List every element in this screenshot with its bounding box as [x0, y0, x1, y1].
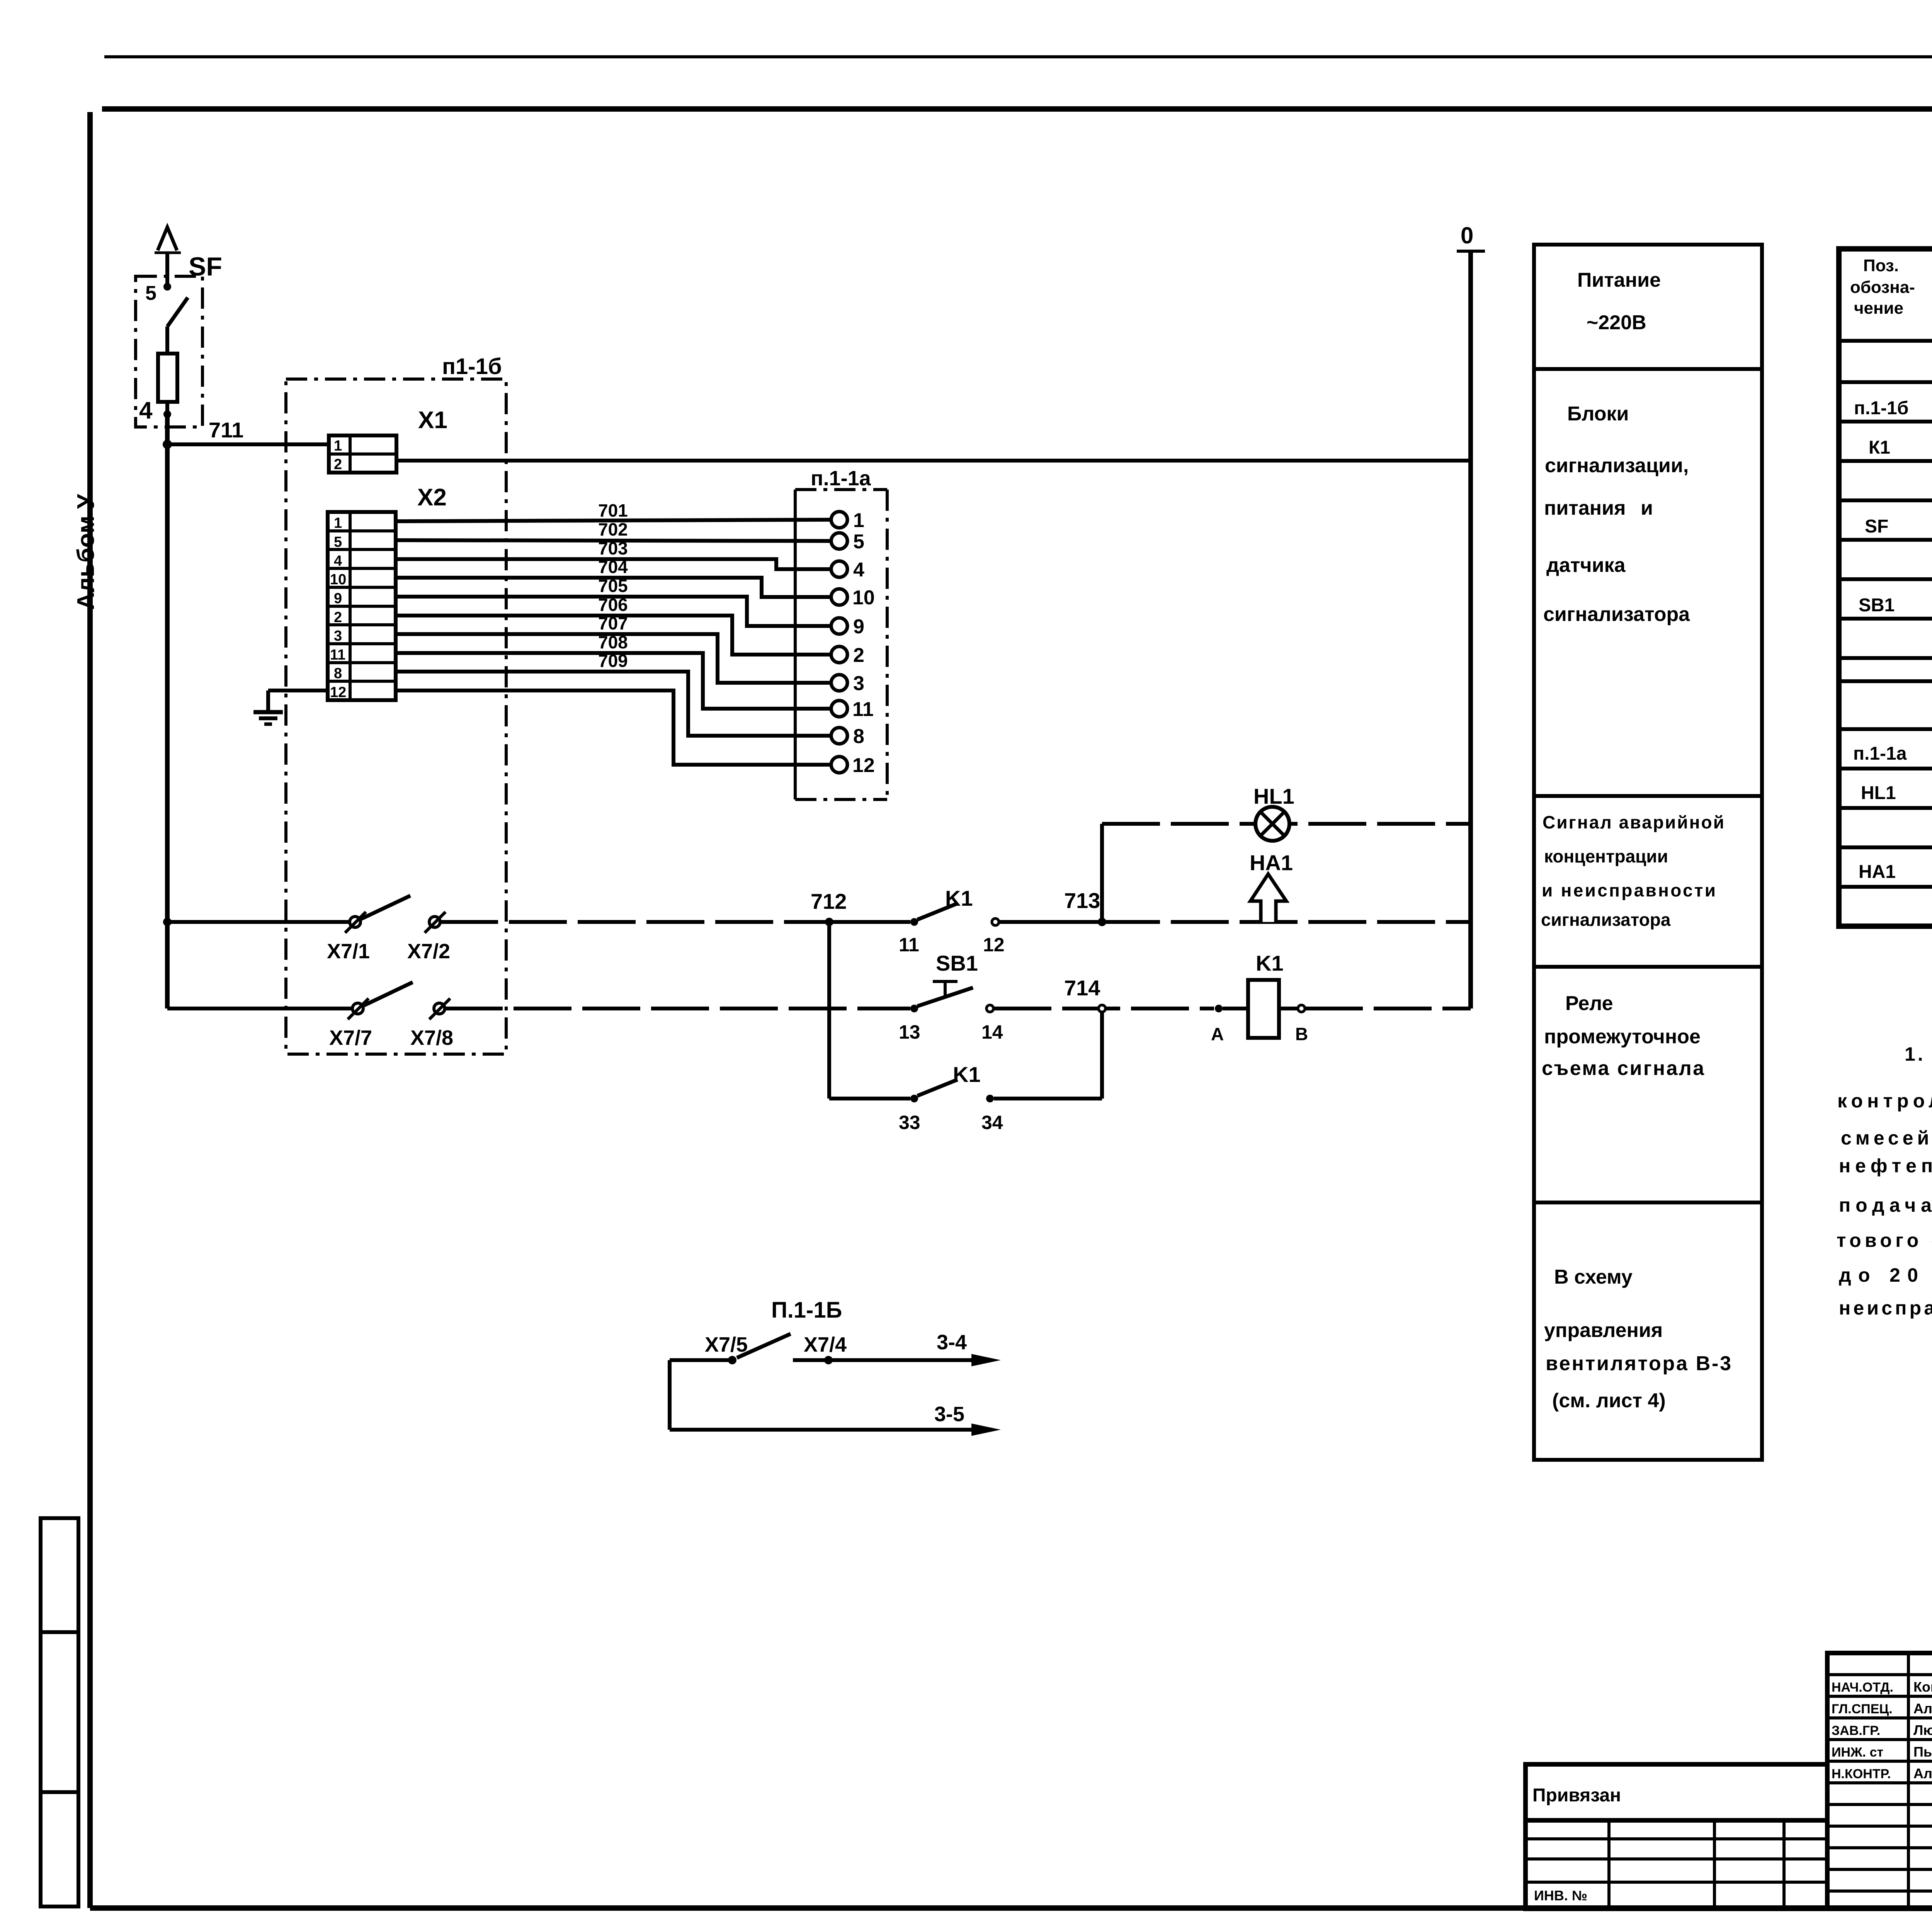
svg-text:вентилятора В-3: вентилятора В-3	[1546, 1352, 1731, 1375]
wire to sheet 3-4	[937, 1331, 1001, 1366]
wire branch to lamp	[1102, 824, 1471, 922]
pin 12 of connector п.1-1а	[831, 754, 875, 777]
svg-text:ИНЖ. ст: ИНЖ. ст	[1832, 1745, 1883, 1760]
pin 9 of connector п.1-1а	[831, 616, 864, 638]
row п.1-1б	[1854, 398, 1932, 418]
label power 220V	[1577, 269, 1661, 334]
svg-text:П.1-1Б: П.1-1Б	[771, 1298, 842, 1323]
svg-text:SB1: SB1	[1859, 595, 1895, 616]
contact X7/8	[410, 998, 453, 1049]
wire to sheet 3-5	[670, 1360, 1001, 1436]
fuse in SF	[139, 354, 177, 424]
svg-text:ГЛ.СПЕЦ.: ГЛ.СПЕЦ.	[1832, 1702, 1893, 1716]
svg-text:тового сигнала о повышени: тового сигнала о повышении концентрации …	[1837, 1230, 1932, 1251]
svg-text:1. Схемой предусматривается:: 1. Схемой предусматривается:	[1905, 1043, 1932, 1065]
svg-text:съема сигнала: съема сигнала	[1542, 1057, 1704, 1080]
label signal blocks	[1543, 403, 1690, 626]
wire rail to horn	[1102, 920, 1471, 924]
wire 707	[396, 613, 831, 683]
svg-text:К1: К1	[1869, 437, 1890, 458]
svg-text:2: 2	[853, 644, 864, 667]
svg-text:K1: K1	[945, 886, 973, 910]
svg-text:чение: чение	[1854, 299, 1903, 318]
switch blade X7/5	[737, 1334, 791, 1358]
contact X7/5	[670, 1333, 748, 1364]
svg-text:Алексеев: Алексеев	[1913, 1765, 1932, 1781]
svg-text:34: 34	[981, 1112, 1003, 1133]
wire 701	[396, 500, 831, 521]
row HL1	[1861, 783, 1932, 803]
svg-text:33: 33	[899, 1112, 920, 1133]
inventory table	[1526, 1820, 1827, 1909]
svg-text:K1: K1	[953, 1062, 981, 1087]
svg-text:3: 3	[853, 672, 864, 695]
svg-text:Питание: Питание	[1577, 269, 1661, 291]
svg-text:HA1: HA1	[1859, 862, 1896, 882]
pin 5 of connector п.1-1а	[831, 531, 864, 553]
relay contact K1 11-12	[899, 886, 1005, 956]
pin 8 of connector п.1-1а	[831, 725, 864, 748]
neutral bus wire	[1468, 251, 1473, 1009]
wire lower rail from bus	[167, 1007, 352, 1010]
phase bus wire	[163, 414, 172, 1009]
svg-text:питания: питания	[1544, 497, 1626, 519]
neutral node 0	[1457, 223, 1485, 251]
wire 714	[993, 976, 1214, 1012]
svg-text:SF: SF	[189, 252, 222, 281]
svg-text:Альбом У: Альбом У	[73, 493, 99, 610]
svg-text:703: 703	[598, 538, 628, 558]
svg-text:Пыжова: Пыжова	[1913, 1744, 1932, 1760]
contact X7/2	[407, 912, 450, 963]
svg-text:Поз.: Поз.	[1863, 256, 1899, 275]
svg-text:В схему: В схему	[1554, 1266, 1633, 1288]
svg-text:3-5: 3-5	[934, 1403, 964, 1426]
svg-text:4: 4	[139, 397, 153, 424]
node X7/4	[793, 1333, 985, 1364]
svg-text:12: 12	[330, 684, 346, 701]
wire 704	[396, 557, 831, 597]
svg-text:п.1-1а: п.1-1а	[1853, 743, 1907, 764]
svg-text:0: 0	[1461, 223, 1473, 248]
svg-text:K1: K1	[1256, 951, 1284, 975]
svg-text:712: 712	[811, 889, 847, 913]
svg-text:п.1-1б: п.1-1б	[1854, 398, 1908, 418]
svg-text:Реле: Реле	[1565, 992, 1613, 1015]
svg-text:5: 5	[145, 282, 156, 304]
svg-text:5: 5	[334, 534, 342, 550]
pin 10 of connector п.1-1а	[831, 587, 875, 609]
svg-text:11: 11	[330, 647, 345, 663]
svg-text:промежуточное: промежуточное	[1544, 1026, 1701, 1048]
ground	[253, 690, 328, 724]
svg-text:Любимов: Любимов	[1913, 1722, 1932, 1738]
row HA1	[1859, 862, 1932, 882]
svg-text:X7/7: X7/7	[329, 1026, 372, 1049]
note 1	[1837, 1043, 1932, 1319]
svg-text:X7/1: X7/1	[327, 940, 370, 963]
wire 711	[163, 418, 329, 449]
wire 706	[396, 595, 831, 655]
svg-text:ЗАВ.ГР.: ЗАВ.ГР.	[1832, 1723, 1880, 1738]
signal lamp HL1	[1253, 784, 1294, 841]
svg-text:8: 8	[334, 665, 342, 682]
pin 1 of connector п.1-1а	[831, 509, 864, 532]
label alarm signal	[1541, 812, 1724, 930]
svg-text:10: 10	[330, 571, 346, 588]
label relay	[1542, 992, 1704, 1080]
svg-text:Блоки: Блоки	[1567, 403, 1629, 425]
svg-text:X7/4: X7/4	[804, 1333, 847, 1356]
svg-text:702: 702	[598, 519, 628, 539]
svg-text:п1-1б: п1-1б	[442, 354, 502, 379]
svg-text:контроль до взрывоопасных: контроль до взрывоопасных концентраций в…	[1837, 1090, 1932, 1112]
wire to pin 12	[396, 690, 831, 765]
row п.1-1а	[1853, 743, 1932, 764]
switch blade X7/1-X7/2	[361, 896, 410, 919]
svg-text:НАЧ.ОТД.: НАЧ.ОТД.	[1832, 1680, 1893, 1695]
svg-text:Н.КОНТР.: Н.КОНТР.	[1832, 1767, 1891, 1781]
svg-text:2: 2	[334, 456, 342, 473]
svg-text:HL1: HL1	[1861, 783, 1896, 803]
svg-text:Сигнал аварийной: Сигнал аварийной	[1543, 812, 1724, 832]
svg-text:13: 13	[899, 1021, 920, 1043]
svg-text:701: 701	[598, 500, 628, 520]
relay contact K1 33-34	[899, 1062, 1003, 1133]
svg-text:и: и	[1641, 497, 1653, 519]
svg-text:10: 10	[852, 587, 875, 609]
device boundary п1-1б	[286, 354, 506, 1054]
node 712	[811, 889, 910, 926]
pushbutton SB1	[899, 951, 1003, 1043]
svg-text:1: 1	[334, 515, 342, 531]
pin 11 of connector п.1-1а	[831, 698, 874, 721]
wire to node 712	[440, 920, 829, 924]
pin 4 of connector п.1-1а	[831, 559, 864, 581]
svg-text:SB1: SB1	[936, 951, 978, 975]
svg-text:3: 3	[334, 628, 342, 644]
svg-text:B: B	[1295, 1024, 1308, 1044]
svg-text:11: 11	[899, 934, 919, 956]
svg-text:HA1: HA1	[1250, 850, 1293, 875]
label fan control	[1544, 1266, 1731, 1412]
wire 705	[396, 576, 831, 626]
svg-text:X2: X2	[417, 484, 447, 511]
svg-text:SF: SF	[1865, 516, 1888, 537]
svg-text:управления: управления	[1544, 1319, 1663, 1342]
wire 709	[396, 651, 831, 736]
contact X7/7	[329, 998, 372, 1049]
pin 3 of connector п.1-1а	[831, 672, 864, 695]
svg-text:(см. лист 4): (см. лист 4)	[1552, 1389, 1666, 1412]
element table grid	[1839, 249, 1932, 926]
svg-text:707: 707	[598, 613, 628, 633]
svg-text:705: 705	[598, 576, 628, 596]
svg-text:4: 4	[853, 559, 864, 581]
connector п.1-1а boundary	[795, 467, 887, 799]
row К1	[1869, 437, 1932, 458]
svg-text:12: 12	[852, 754, 875, 777]
row SF	[1865, 516, 1932, 537]
wire 702	[396, 519, 831, 541]
svg-text:11: 11	[852, 698, 874, 721]
wire coil to neutral	[1305, 1007, 1471, 1010]
contact X7/1	[327, 912, 370, 963]
svg-text:8: 8	[853, 725, 864, 748]
wire upper rail from bus	[167, 920, 350, 924]
svg-text:Алексеев: Алексеев	[1913, 1701, 1932, 1716]
function column boxes	[1534, 245, 1762, 1460]
svg-text:3-4: 3-4	[937, 1331, 967, 1354]
terminal block X2	[328, 484, 447, 701]
svg-text:4: 4	[334, 553, 342, 569]
svg-text:X7/2: X7/2	[407, 940, 450, 963]
svg-text:~220В: ~220В	[1587, 311, 1646, 334]
row SB1	[1859, 595, 1932, 616]
svg-text:HL1: HL1	[1253, 784, 1294, 808]
svg-text:A: A	[1211, 1024, 1224, 1044]
pin 2 of connector п.1-1а	[831, 644, 864, 667]
svg-text:и неисправности: и неисправности	[1542, 880, 1716, 900]
svg-text:14: 14	[981, 1021, 1003, 1043]
svg-text:X7/8: X7/8	[410, 1026, 453, 1049]
svg-text:709: 709	[598, 651, 628, 671]
svg-text:ИНВ. №: ИНВ. №	[1534, 1888, 1587, 1903]
svg-text:12: 12	[983, 934, 1005, 956]
svg-text:714: 714	[1064, 976, 1100, 1000]
svg-text:711: 711	[209, 418, 243, 442]
svg-text:2: 2	[334, 609, 342, 626]
label П.1-1Б	[771, 1298, 842, 1323]
table header	[1850, 256, 1932, 318]
album label	[73, 493, 99, 610]
svg-text:5: 5	[853, 531, 864, 553]
svg-text:датчика: датчика	[1546, 554, 1626, 577]
svg-text:704: 704	[598, 557, 628, 577]
horn HA1	[1250, 850, 1293, 922]
svg-text:708: 708	[598, 632, 628, 652]
wire 713	[999, 888, 1106, 926]
svg-text:1: 1	[334, 438, 342, 454]
svg-text:Привязан: Привязан	[1532, 1785, 1621, 1806]
title block signature table	[1827, 1653, 1932, 1909]
svg-text:9: 9	[334, 590, 342, 607]
svg-text:п.1-1а: п.1-1а	[811, 467, 871, 490]
svg-text:Кондратьев: Кондратьев	[1913, 1679, 1932, 1695]
wire branch to node 714	[994, 1012, 1102, 1099]
svg-text:X7/5: X7/5	[705, 1333, 748, 1356]
svg-text:сигнализатора: сигнализатора	[1541, 910, 1671, 930]
terminal block X1	[329, 407, 447, 473]
svg-text:сигнализации,: сигнализации,	[1545, 454, 1689, 477]
wire to pushbutton	[445, 1007, 910, 1010]
circuit breaker SF	[136, 227, 222, 427]
svg-text:обозна-: обозна-	[1850, 278, 1915, 297]
svg-text:9: 9	[853, 616, 864, 638]
left margin boxes	[41, 1518, 78, 1906]
wire 708	[396, 632, 831, 709]
signature table texts	[1832, 1679, 1932, 1781]
svg-text:концентрации: концентрации	[1544, 846, 1668, 866]
svg-text:сигнализатора: сигнализатора	[1543, 603, 1690, 626]
svg-text:X1: X1	[418, 407, 447, 434]
switch blade X7/7-X7/8	[364, 982, 413, 1005]
wire X1 to neutral bus	[396, 459, 1471, 463]
attachment box	[1526, 1764, 1827, 1820]
wire 703	[396, 538, 831, 569]
relay coil K1	[1211, 951, 1308, 1044]
svg-text:1: 1	[853, 509, 864, 532]
svg-text:713: 713	[1064, 888, 1100, 913]
wire branch down from 712	[829, 922, 910, 1099]
svg-text:706: 706	[598, 595, 628, 615]
